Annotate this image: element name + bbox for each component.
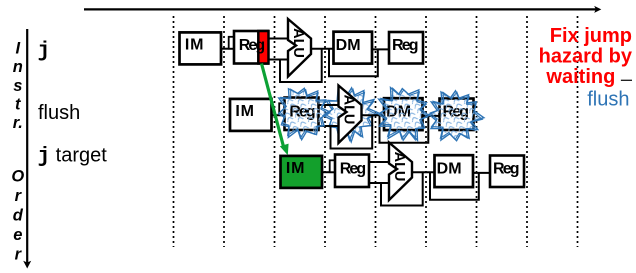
svg-text:flush: flush bbox=[38, 102, 80, 124]
svg-text:hazard by: hazard by bbox=[539, 46, 633, 68]
svg-text:Reg: Reg bbox=[493, 161, 520, 178]
svg-text:IM: IM bbox=[286, 160, 305, 177]
svg-text:t: t bbox=[15, 96, 22, 114]
svg-text:s: s bbox=[13, 77, 22, 95]
svg-text:Fix jump: Fix jump bbox=[550, 25, 632, 47]
svg-text:n: n bbox=[13, 58, 23, 76]
svg-text:waiting –: waiting – bbox=[545, 66, 632, 90]
svg-text:Reg: Reg bbox=[340, 161, 367, 178]
svg-text:r: r bbox=[15, 246, 23, 264]
svg-text:DM: DM bbox=[336, 37, 361, 54]
svg-text:flush: flush bbox=[587, 88, 629, 110]
svg-text:r.: r. bbox=[13, 114, 23, 132]
svg-text:I: I bbox=[16, 39, 21, 57]
svg-text:O: O bbox=[11, 168, 24, 186]
svg-text:j: j bbox=[38, 40, 51, 63]
svg-text:ALU: ALU bbox=[391, 152, 407, 182]
svg-text:r: r bbox=[15, 187, 23, 205]
svg-text:j target: j target bbox=[38, 145, 108, 169]
svg-text:Reg: Reg bbox=[239, 37, 266, 54]
svg-text:IM: IM bbox=[185, 37, 204, 54]
svg-text:IM: IM bbox=[235, 103, 254, 120]
svg-text:d: d bbox=[13, 207, 24, 225]
svg-text:ALU: ALU bbox=[290, 28, 306, 58]
svg-text:Reg: Reg bbox=[392, 37, 419, 54]
svg-text:DM: DM bbox=[437, 160, 462, 177]
svg-text:e: e bbox=[13, 226, 22, 244]
svg-text:ALU: ALU bbox=[340, 95, 356, 125]
